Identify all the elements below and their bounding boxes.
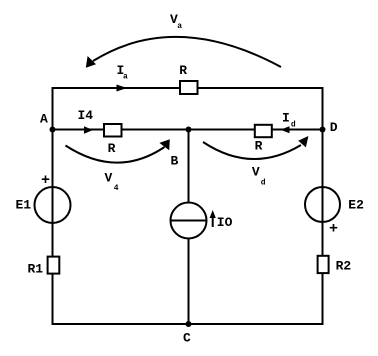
label Va [170,12,182,31]
wire bottom (through C) [53,323,323,325]
node B [186,127,192,133]
current source I0 (circle with chord) [171,203,207,239]
resistor R (left middle) [104,124,122,137]
svg-text:D: D [330,120,338,135]
svg-text:I: I [282,110,290,125]
svg-text:V: V [105,170,113,185]
voltage source E1 (circle) [35,187,71,223]
current arrow I0 [210,210,216,227]
voltage arc Vd [203,142,301,159]
svg-text:R1: R1 [28,262,44,277]
label Id [282,110,296,129]
svg-text:C: C [183,331,191,346]
label V4 [105,170,119,193]
current arrow Ia [117,85,128,92]
svg-text:R: R [108,141,116,156]
svg-text:I4: I4 [78,108,94,123]
current arrow I4 [84,126,93,133]
svg-text:E1: E1 [16,198,32,213]
resistor R2 [318,256,329,273]
wire top (A-corner to D-corner) [53,87,323,89]
arrowhead V4 [159,139,169,150]
wire left vertical (top corner through A, E1, R1 to bottom) [52,87,54,325]
label Ia [117,63,129,82]
node C [186,321,192,327]
svg-text:R: R [179,63,187,78]
svg-text:4: 4 [114,184,119,193]
wire right vertical (top corner through D, E2, R2 to bottom) [322,87,324,325]
wire middle horizontal (A to D through B) [53,129,323,131]
resistor R (top) [180,81,198,94]
current arrow Id [281,126,290,133]
svg-text:a: a [123,73,128,82]
svg-text:B: B [171,154,179,169]
svg-text:IO: IO [217,215,233,230]
label Vd [252,165,266,188]
arrowhead Va [86,56,96,68]
wire middle vertical (B through I0 to C) [188,130,190,326]
svg-text:R2: R2 [336,259,352,274]
resistor R (right middle) [255,125,272,137]
voltage arc V4 [66,146,165,163]
voltage arc Va [93,37,281,67]
svg-text:d: d [291,121,296,130]
svg-text:d: d [261,178,266,187]
arrowhead Vd [298,136,308,147]
voltage source E2 (circle) [305,187,340,222]
resistor R1 [48,257,60,274]
svg-text:R: R [255,138,263,153]
svg-text:+: + [329,221,338,238]
svg-text:A: A [40,112,48,127]
svg-text:a: a [177,22,182,31]
svg-text:V: V [252,165,260,180]
node A [50,127,56,133]
svg-text:+: + [41,172,50,189]
svg-text:E2: E2 [348,198,364,213]
node D [320,127,326,133]
